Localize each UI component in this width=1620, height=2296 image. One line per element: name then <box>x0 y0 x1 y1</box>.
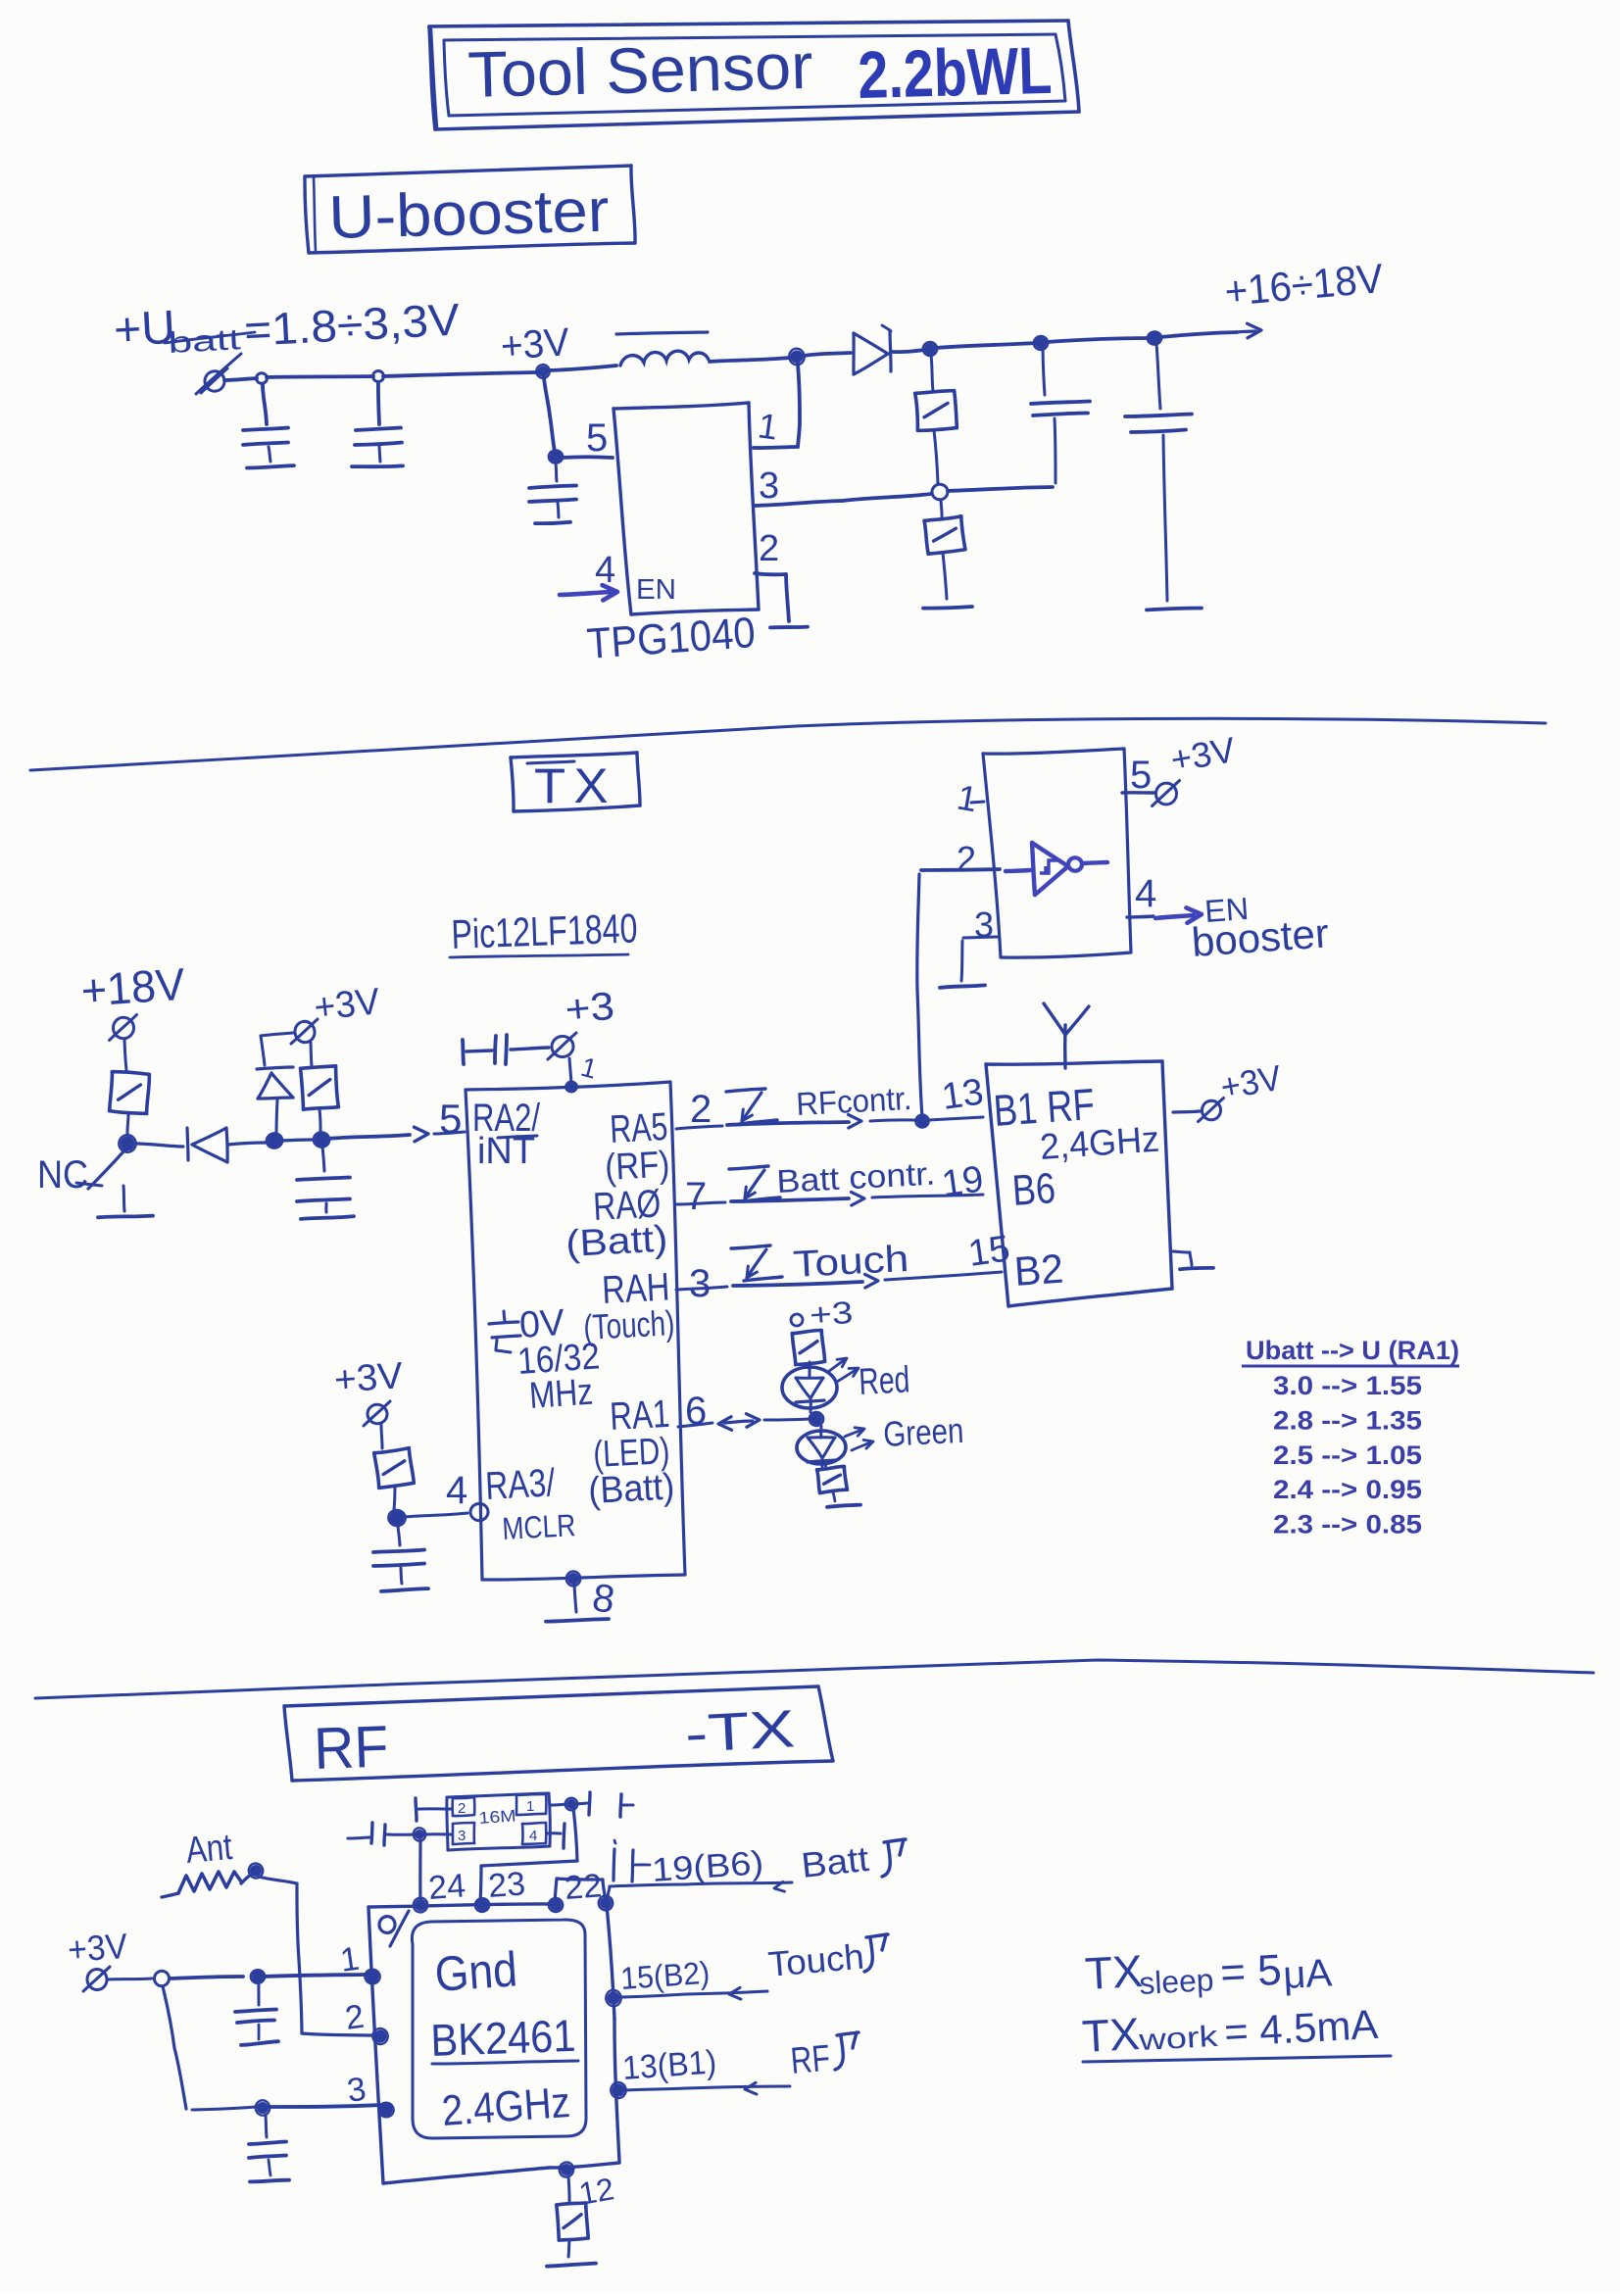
curl (RF) <box>835 2032 859 2070</box>
svg-text:19(B6): 19(B6) <box>651 1844 764 1889</box>
svg-text:7: 7 <box>685 1175 707 1218</box>
internal osc symbol <box>489 1311 520 1352</box>
label (Batt) 2 <box>587 1466 675 1512</box>
wire R4 to node <box>127 1113 128 1134</box>
capacitor C12 plate (pin4) <box>548 1824 565 1848</box>
svg-text:+3V: +3V <box>333 1355 405 1401</box>
wire RA0 to Batt contr <box>676 1195 983 1204</box>
double arrow (pin6) <box>718 1414 760 1431</box>
wire +3V to pin5 <box>544 377 555 452</box>
label +3V (MCLR) <box>333 1355 405 1401</box>
capacitor C13 <box>235 1983 278 2045</box>
pin label 12 (U5) <box>576 2171 616 2212</box>
label 15(B2) <box>619 1955 711 1996</box>
svg-text:4: 4 <box>529 1828 537 1844</box>
svg-text:Ant: Ant <box>184 1827 234 1872</box>
svg-text:2.3 --> 0.85: 2.3 --> 0.85 <box>1273 1510 1422 1539</box>
inner box Gnd (U5) <box>412 1920 586 2138</box>
wire to cap/pin3 <box>192 2105 380 2110</box>
svg-text:(Batt): (Batt) <box>565 1219 668 1265</box>
arrow (Batt contr) <box>852 1192 865 1205</box>
node pin24 (U5) <box>412 1896 428 1914</box>
capacitor C10 <box>348 1823 415 1845</box>
svg-text:+18V: +18V <box>79 958 187 1016</box>
IC U4 PIC box <box>466 1082 685 1580</box>
label BK2461 <box>430 2010 578 2066</box>
pin label 5 (U4) <box>439 1096 462 1142</box>
capacitor C8 (pin1 decoupling) <box>463 1035 549 1064</box>
edge symbol (Touch line) <box>731 1246 782 1281</box>
svg-text:24: 24 <box>427 1867 466 1907</box>
svg-text:5: 5 <box>586 416 608 460</box>
svg-text:(Batt): (Batt) <box>587 1466 675 1512</box>
svg-text:+3V: +3V <box>500 320 571 368</box>
svg-text:B2: B2 <box>1012 1246 1064 1295</box>
arrow (Touch line) <box>729 1987 741 1999</box>
node R2 (RF rail) <box>250 1970 265 1983</box>
svg-text:B6: B6 <box>1010 1164 1056 1215</box>
node N4 <box>922 342 937 357</box>
wire +3V (U3) <box>1173 1111 1200 1112</box>
wire RA5 to RF contr <box>676 1120 916 1129</box>
svg-text:μA: μA <box>1282 1951 1333 1997</box>
svg-text:4: 4 <box>446 1469 467 1512</box>
table Ubatt->U(RA1) <box>1242 1336 1459 1539</box>
svg-text:16M: 16M <box>478 1806 516 1828</box>
pin label 3 (U5) <box>345 2071 368 2110</box>
arrow (Batt line) <box>774 1881 785 1891</box>
svg-text:RA3/: RA3/ <box>484 1461 557 1508</box>
resistor R9 <box>557 2203 588 2257</box>
pin label 3 (U1) <box>759 465 779 507</box>
svg-text:2.4GHz: 2.4GHz <box>440 2078 571 2135</box>
wire RF (pin13) <box>625 2086 790 2090</box>
label TXsleep <box>1084 1945 1334 2001</box>
wire pin1 (U4) <box>569 1058 571 1083</box>
svg-text:-TX: -TX <box>683 1699 796 1764</box>
svg-text:TX: TX <box>1084 1945 1144 1999</box>
capacitor C2 <box>352 382 403 466</box>
node pin2 (U5) <box>371 2027 390 2045</box>
node antenna end <box>241 1862 265 1883</box>
inductor L1 <box>616 332 709 366</box>
node pin13 (U5) <box>610 2080 628 2099</box>
wire node A to node B <box>281 1140 315 1141</box>
edge symbol (Batt line) <box>729 1166 780 1201</box>
diode D3 (zener to +3V) <box>257 1033 293 1133</box>
svg-text:TX: TX <box>534 758 616 813</box>
pin label 3 (U2) <box>974 904 994 945</box>
TX label box <box>511 753 640 811</box>
crystal pin box 2 <box>453 1797 475 1817</box>
IC U3 RF module box <box>986 1061 1172 1306</box>
label TXwork <box>1081 2001 1379 2062</box>
node pin8 (U4) <box>566 1571 581 1586</box>
pin label 24 (U5) <box>427 1867 466 1907</box>
svg-text:+3: +3 <box>564 985 616 1032</box>
svg-text:2.4 --> 0.95: 2.4 --> 0.95 <box>1273 1475 1422 1504</box>
label Batt contr. <box>775 1155 936 1199</box>
svg-text:work: work <box>1137 2021 1219 2057</box>
capacitor C14 <box>249 2115 289 2181</box>
svg-text:2.5 --> 1.05: 2.5 --> 1.05 <box>1273 1441 1422 1470</box>
label +3V (RF section) <box>67 1926 129 1970</box>
svg-text:RFcontr.: RFcontr. <box>795 1080 912 1122</box>
svg-text:= 5: = 5 <box>1219 1946 1283 1997</box>
label B1 RF <box>992 1079 1096 1136</box>
node X1 right <box>565 1797 578 1811</box>
switch lever (NC) <box>76 1149 125 1189</box>
label RA0 <box>592 1182 662 1229</box>
svg-text:Pic12LF1840: Pic12LF1840 <box>451 904 639 957</box>
svg-text:MHz: MHz <box>528 1372 595 1417</box>
svg-text:3.0 --> 1.55: 3.0 --> 1.55 <box>1273 1371 1422 1400</box>
underline TXwork <box>1083 2056 1391 2062</box>
pin 1 stub (U2) <box>971 802 984 803</box>
RF label text <box>313 1713 389 1782</box>
node SW <box>788 347 806 366</box>
label +3 (pin1) <box>564 985 616 1032</box>
pin label 8 (U4) <box>590 1576 617 1622</box>
svg-text:3: 3 <box>458 1828 466 1844</box>
IC U5 BK2461 box <box>368 1879 619 2183</box>
crystal pin box 4 <box>522 1823 546 1844</box>
wire pin12 <box>568 2176 569 2202</box>
label (RF) <box>604 1145 670 1189</box>
node pin3 (U5) <box>377 2101 395 2119</box>
svg-text:2: 2 <box>759 528 779 569</box>
ground (pin8) <box>546 1619 609 1622</box>
wire pin6 (U4) <box>678 1419 810 1427</box>
pin label 22 (U5) <box>564 1867 603 1907</box>
pin label 2 (U2) <box>957 839 976 879</box>
TX label text <box>527 758 616 813</box>
node N5 <box>1032 335 1049 352</box>
pin label 7 (U4) <box>685 1175 707 1218</box>
svg-text:2.2bWL: 2.2bWL <box>857 33 1053 113</box>
wire RA4 to Touch <box>676 1272 1002 1290</box>
node pin1 (U4) <box>565 1081 577 1093</box>
pin label 1 (U1) <box>756 405 781 447</box>
label MHz <box>528 1372 595 1417</box>
resistor R5 <box>301 1043 339 1132</box>
pin 4 circle (U4) <box>469 1502 489 1521</box>
pin label 4 (U4) <box>446 1469 467 1512</box>
curl (Touch) <box>864 1934 888 1972</box>
label +16÷18V <box>1223 255 1385 315</box>
svg-text:19: 19 <box>939 1158 986 1204</box>
wire Touch (pin15) <box>620 1991 767 1997</box>
svg-text:2.8 --> 1.35: 2.8 --> 1.35 <box>1273 1405 1422 1435</box>
svg-text:2: 2 <box>690 1088 712 1131</box>
wire junction to pin13 <box>928 1117 983 1120</box>
pin label 2 (U1) <box>759 528 779 569</box>
label 16/32 <box>516 1336 602 1383</box>
connector +3V (MCLR) <box>364 1401 390 1426</box>
node pin1 (U5) <box>364 1968 381 1985</box>
wire MCLR <box>405 1513 467 1517</box>
pin label 5 (U1) <box>586 416 608 460</box>
svg-text:2: 2 <box>957 839 976 879</box>
arrow into pin5 <box>415 1127 429 1142</box>
svg-text:Ubatt --> U (RA1): Ubatt --> U (RA1) <box>1246 1336 1459 1365</box>
svg-text:13(B1): 13(B1) <box>621 2043 717 2087</box>
svg-text:5: 5 <box>1130 754 1152 797</box>
pin label 2 (U5) <box>343 1998 367 2037</box>
node MCLR <box>387 1509 407 1528</box>
title box <box>429 21 1079 129</box>
wire X1 to pin24 <box>418 1840 421 1901</box>
pin label 5 (U2) <box>1130 754 1152 797</box>
ground (NC) <box>98 1186 153 1217</box>
svg-text:5: 5 <box>439 1096 462 1142</box>
label Green <box>882 1410 964 1454</box>
arrow (RF line) <box>745 2082 757 2094</box>
node N6 <box>1147 330 1162 346</box>
edge symbol (RF line) <box>726 1089 777 1124</box>
svg-text:22: 22 <box>564 1867 603 1907</box>
svg-text:3: 3 <box>759 465 779 507</box>
svg-text:2,4GHz: 2,4GHz <box>1039 1119 1161 1167</box>
label B6 <box>1010 1164 1056 1215</box>
resistor R4 <box>110 1072 150 1114</box>
svg-text:= 4.5mA: = 4.5mA <box>1223 2001 1379 2055</box>
label TPG1040 <box>585 609 757 668</box>
wire pin3 to FB <box>755 487 1053 506</box>
wire +3V rail (RF) <box>107 1975 366 1979</box>
diode D2 <box>136 1128 266 1162</box>
node R1 (RF rail) <box>153 1970 171 1987</box>
divider line 2 <box>35 1660 1594 1698</box>
pin label 19 (U3) <box>939 1158 986 1204</box>
LED D5 (Green) <box>797 1426 847 1468</box>
pin label 1 (U5) <box>338 1940 362 1979</box>
label Red <box>858 1359 910 1403</box>
node pin23 (U5) <box>473 1897 490 1914</box>
RF label box <box>284 1686 833 1781</box>
label iNT <box>477 1131 537 1172</box>
connector +18V <box>110 1015 137 1041</box>
pin label 4 (U2) <box>1135 872 1156 915</box>
curl (Batt) <box>882 1839 906 1877</box>
svg-text:Touch: Touch <box>766 1936 865 1984</box>
label -TX <box>683 1699 796 1764</box>
node RFcontr junction <box>914 1114 929 1129</box>
arrows (Green LED) <box>845 1428 873 1450</box>
pin label 13 (U3) <box>939 1071 986 1117</box>
wire pin3 U2 to ground <box>961 937 999 981</box>
svg-text:3: 3 <box>689 1262 711 1305</box>
svg-text:(RF): (RF) <box>604 1145 670 1189</box>
label RA5 <box>609 1105 668 1151</box>
LED D4 (Red) <box>782 1362 837 1412</box>
crystal pin box 3 <box>453 1823 474 1844</box>
capacitor C6 <box>297 1147 354 1219</box>
arrows (Red LED) <box>828 1358 859 1382</box>
connector +3V (U3) <box>1199 1057 1285 1122</box>
svg-text:+3V: +3V <box>313 981 383 1029</box>
capacitor C4 <box>1031 348 1090 483</box>
label Gnd <box>433 1941 519 2002</box>
svg-text:booster: booster <box>1190 909 1330 965</box>
label B2 <box>1012 1246 1064 1295</box>
label booster <box>1190 909 1330 965</box>
svg-text:15(B2): 15(B2) <box>619 1955 711 1996</box>
label 13(B1) <box>621 2043 717 2087</box>
pin label 2 (U4) <box>690 1088 712 1131</box>
arrow (RF contr) <box>849 1114 862 1128</box>
svg-text:U-booster: U-booster <box>328 177 611 252</box>
output arrow <box>1237 323 1261 338</box>
label Batt <box>800 1838 871 1885</box>
wire node to pin3 (X1) <box>423 1832 452 1835</box>
capacitor C15 <box>614 1840 650 1881</box>
pin label 6 (U4) <box>685 1390 707 1433</box>
node B <box>313 1131 330 1148</box>
label 2,4GHz (U3) <box>1039 1119 1161 1167</box>
label Pic12LF1840 <box>450 904 638 957</box>
U-booster label box <box>305 166 635 253</box>
label RA3/ <box>484 1461 557 1508</box>
svg-text:15: 15 <box>965 1228 1012 1274</box>
node FB <box>931 483 949 500</box>
pin label 4 (U1) <box>595 550 615 591</box>
label RA2/ <box>472 1097 541 1140</box>
IC U2 inverter box <box>983 749 1131 957</box>
label Ant <box>184 1827 234 1872</box>
connector +3 (pin1) <box>548 1033 576 1059</box>
svg-text:Tool Sensor: Tool Sensor <box>466 29 813 111</box>
title text "2.2bWL" <box>857 33 1053 113</box>
wire Batt (pin22) <box>608 1882 792 1897</box>
wire pin8 <box>574 1584 576 1612</box>
resistor R7 <box>817 1464 848 1501</box>
resistor R6 <box>792 1330 824 1368</box>
pin label 1 (U4) <box>577 1051 600 1085</box>
node NC switch <box>118 1134 136 1152</box>
pin 4 wire (U2) <box>1127 916 1154 917</box>
pin label 3 (U4) <box>689 1262 711 1305</box>
node pin22b (U5) <box>598 1895 614 1912</box>
svg-text:1: 1 <box>526 1798 534 1815</box>
resistor R8 <box>374 1425 415 1509</box>
label RA1 <box>609 1392 670 1439</box>
label RFcontr. <box>795 1080 912 1122</box>
svg-text:Batt: Batt <box>800 1838 871 1885</box>
svg-text:23: 23 <box>487 1865 526 1905</box>
capacitor C3 <box>529 464 576 523</box>
node pin15 (U5) <box>605 1989 622 2008</box>
capacitor C5 <box>1125 343 1202 610</box>
label MCLR <box>501 1507 576 1546</box>
svg-text:+3V: +3V <box>67 1926 129 1970</box>
label 2.4GHz (U5) <box>440 2078 571 2135</box>
capacitor C1 <box>243 384 294 468</box>
pin label 15 (U3) <box>965 1228 1012 1274</box>
label RF (wire) <box>789 2038 832 2082</box>
pin label 1 (U2) <box>955 777 981 820</box>
connector J1 (battery input) <box>196 354 241 394</box>
inductor L2 (antenna) <box>162 1872 241 1897</box>
node N3 (pin5) <box>549 450 564 463</box>
wire L1 to SW node <box>710 358 790 362</box>
node X1 left <box>413 1828 426 1842</box>
EN booster arrow <box>1155 907 1202 922</box>
label +3 (LED) <box>791 1295 854 1333</box>
label RA4 <box>601 1265 670 1312</box>
ground (pin12) <box>547 2264 596 2267</box>
node pin22a (U5) <box>549 1898 564 1912</box>
resistor R1 <box>915 355 957 483</box>
label 19(B6) <box>651 1844 764 1889</box>
ground (LED) <box>827 1505 860 1507</box>
wire output rail <box>937 332 1237 348</box>
svg-text:2: 2 <box>458 1800 466 1817</box>
wire +18V down <box>124 1039 126 1070</box>
svg-text:4: 4 <box>1135 872 1156 915</box>
svg-text:NC: NC <box>37 1153 88 1197</box>
wire X1 right to pin23 <box>480 1808 577 1901</box>
crystal X1 box <box>447 1793 550 1850</box>
label Touch <box>766 1936 865 1984</box>
pin 5 wire (U2) <box>1122 791 1154 795</box>
arrow (Touch) <box>865 1274 879 1288</box>
wire pin2 to gnd <box>755 573 808 627</box>
connector +3V (U2) <box>1153 729 1239 806</box>
svg-text:12: 12 <box>576 2171 616 2212</box>
wire batt rail <box>224 366 616 380</box>
svg-text:sleep: sleep <box>1138 1962 1214 2001</box>
node A <box>266 1132 284 1149</box>
capacitor C7 <box>373 1526 428 1591</box>
node +3V (booster) <box>500 320 571 378</box>
wire rail drop <box>163 1986 186 2109</box>
capacitor C11 <box>576 1792 633 1817</box>
svg-text:Gnd: Gnd <box>433 1941 519 2002</box>
label +Ubatt=1.8÷3,3V <box>113 294 462 360</box>
diode D1 <box>804 325 924 374</box>
IC U1 TPS61040 box <box>614 403 759 614</box>
svg-text:BK2461: BK2461 <box>430 2010 577 2066</box>
svg-text:Touch: Touch <box>792 1239 909 1286</box>
capacitor C9 plate <box>416 1798 452 1821</box>
svg-text:Green: Green <box>882 1410 964 1454</box>
wire SW to pin1 <box>754 364 800 448</box>
connector +3V (RF section) <box>83 1967 110 1991</box>
wire pin5 <box>562 455 613 460</box>
svg-text:MCLR: MCLR <box>501 1507 576 1546</box>
pin label 23 (U5) <box>487 1865 526 1905</box>
node LED junction <box>810 1412 823 1426</box>
node R3 (pin3 wire) <box>255 2100 270 2117</box>
svg-text:EN: EN <box>636 574 676 606</box>
wire pin1 (X1) <box>550 1804 566 1805</box>
ground (U2 pin3) <box>940 985 985 988</box>
svg-text:TX: TX <box>1081 2008 1141 2062</box>
svg-text:+3: +3 <box>809 1295 854 1333</box>
wire pin2 U2 down to RFcontr <box>917 869 1000 1117</box>
node pin12 (U5) <box>558 2161 575 2178</box>
ground (U3) <box>1173 1251 1213 1269</box>
EN arrow (booster) <box>560 585 617 600</box>
label +18V <box>79 958 187 1016</box>
label (LED) <box>592 1431 670 1476</box>
label Touch <box>792 1239 909 1286</box>
svg-text:RF: RF <box>789 2038 832 2082</box>
resistor R2 <box>923 500 972 609</box>
schmitt inverter symbol U2 <box>1006 843 1107 895</box>
label 16M <box>478 1806 516 1828</box>
